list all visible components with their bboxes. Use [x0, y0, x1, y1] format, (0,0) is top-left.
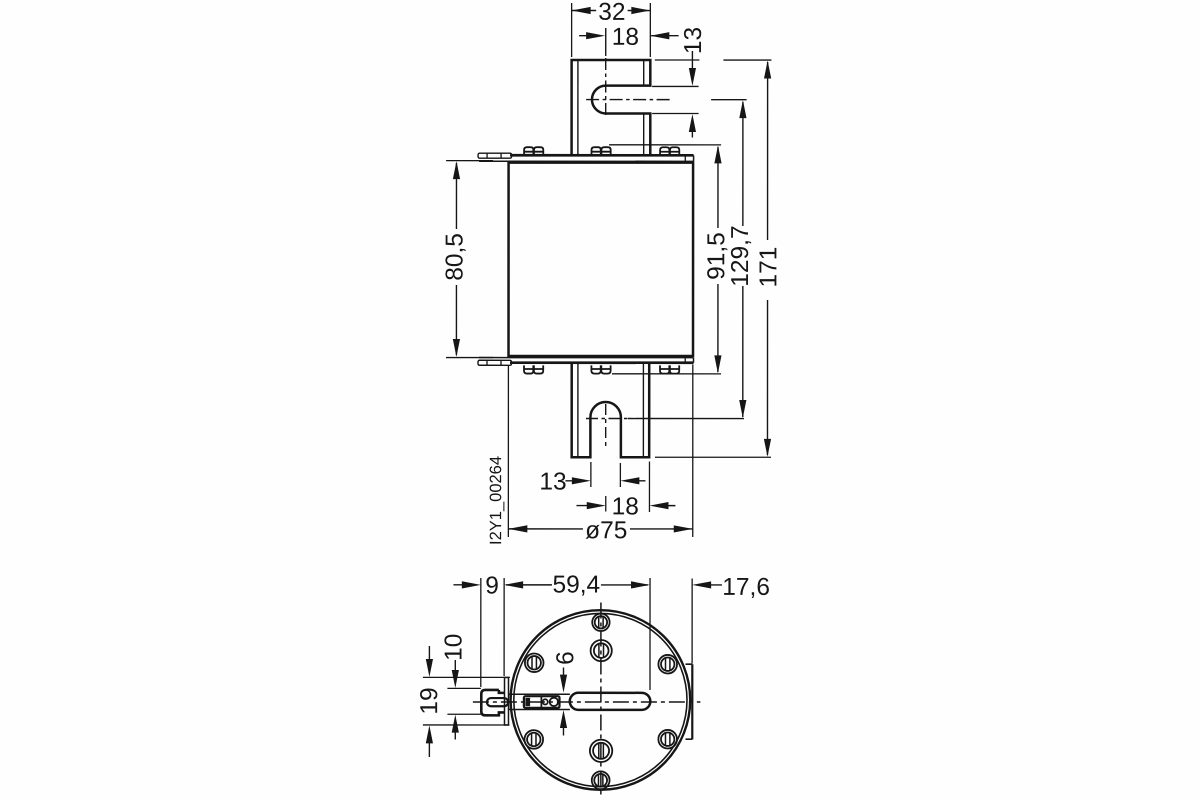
- dim 171 line: [766, 62, 768, 455]
- dim 6 arrows: [562, 667, 564, 735]
- top slot vertical centerline: [605, 31, 607, 56]
- svg-text:171: 171: [755, 247, 782, 288]
- right side plate: [691, 664, 693, 739]
- dim 18 bottom tick and ext: [606, 462, 650, 513]
- svg-text:19: 19: [416, 687, 443, 714]
- dim 17,6 line: [710, 584, 722, 586]
- svg-text:10: 10: [441, 634, 468, 661]
- blade bottom extension line right: [655, 456, 771, 458]
- svg-text:129,7: 129,7: [727, 225, 754, 286]
- fuse body: [509, 163, 694, 356]
- top blade inner line right: [643, 61, 645, 156]
- svg-text:I2Y1_00264: I2Y1_00264: [487, 456, 505, 545]
- bottom view inner circle: [514, 613, 687, 786]
- top blade inner line left: [577, 60, 579, 155]
- screw top: [592, 614, 609, 631]
- svg-text:59,4: 59,4: [552, 571, 600, 598]
- bottom rivets pair right: [660, 365, 679, 373]
- svg-text:18: 18: [612, 24, 639, 51]
- dim 10 arrows: [454, 660, 456, 740]
- svg-text:13: 13: [539, 468, 566, 495]
- rivet top extension line right: [609, 144, 721, 146]
- top rivets pair right: [660, 147, 679, 155]
- bottom flange grip tab: [478, 360, 512, 365]
- bottom rivets pair left: [524, 365, 543, 373]
- vertical centerline: [600, 603, 602, 798]
- striker channel lines: [509, 694, 570, 709]
- svg-text:6: 6: [552, 651, 579, 665]
- bottom blade terminal outline: [572, 363, 650, 458]
- dim 13 bottom line: [565, 480, 645, 482]
- dim 129,7 line: [742, 102, 744, 417]
- dim 80,5: [446, 161, 493, 358]
- svg-text:17,6: 17,6: [722, 574, 770, 601]
- rivet bottom extension line right: [612, 373, 721, 375]
- dim 91,5 line: [717, 147, 719, 372]
- bottom blade inner lines: [578, 363, 644, 458]
- top rivets pair middle: [591, 147, 610, 155]
- dim 59,4 line: [506, 584, 648, 586]
- svg-text:ø75: ø75: [585, 517, 627, 544]
- screw bottom: [592, 771, 610, 789]
- dim Ø75 extension lines: [508, 364, 692, 537]
- dim 13 bottom extension lines: [591, 462, 621, 487]
- dim 9 line: [453, 584, 463, 586]
- screw upper-inner: [591, 640, 612, 661]
- dim 18 top tick at slot centerline: [605, 28, 607, 31]
- bottom flange: [479, 357, 693, 359]
- dim 19 arrows: [428, 646, 430, 757]
- top blade terminal outline: [572, 60, 651, 155]
- dim 13 top (slot height): [691, 51, 693, 138]
- bottom slot horizontal centerline: [586, 417, 628, 419]
- dim 32 line: [572, 9, 651, 11]
- dim 18 bottom line: [576, 505, 675, 507]
- dim 32 extension lines: [572, 3, 651, 57]
- dim 10 extension lines: [447, 688, 481, 714]
- top slot horizontal centerline: [586, 99, 672, 101]
- top rivets pair left: [524, 147, 543, 155]
- bottom rivets pair middle: [591, 365, 610, 373]
- screw upper-right: [658, 655, 677, 674]
- central stadium slot: [570, 693, 651, 710]
- screw lower-right: [658, 730, 677, 749]
- svg-text:80,5: 80,5: [442, 233, 469, 281]
- svg-text:9: 9: [485, 573, 499, 600]
- top flange: [510, 154, 693, 157]
- bottom view outer circle: [511, 610, 691, 790]
- dim 18 top line: [579, 35, 679, 37]
- dim 9 / 59,4 / 17,6 extension lines: [481, 578, 692, 690]
- svg-text:13: 13: [680, 27, 707, 54]
- left side plate: [504, 677, 508, 725]
- horizontal centerline: [473, 701, 701, 703]
- bottom slot vertical centerline: [605, 404, 607, 446]
- slot top/bottom extension lines right: [652, 86, 699, 113]
- grip tab (left): [481, 690, 504, 715]
- screw lower-inner: [590, 740, 612, 762]
- blade top extension line right: [655, 59, 772, 61]
- striker mechanism: [524, 696, 560, 708]
- svg-text:32: 32: [598, 0, 625, 26]
- screw upper-left: [525, 653, 544, 672]
- top flange grip tab: [478, 153, 512, 158]
- grip tab slot: [487, 698, 508, 706]
- screw lower-left: [524, 730, 543, 749]
- dim 19 extension lines: [423, 677, 510, 725]
- dim Ø75 line: [508, 528, 692, 530]
